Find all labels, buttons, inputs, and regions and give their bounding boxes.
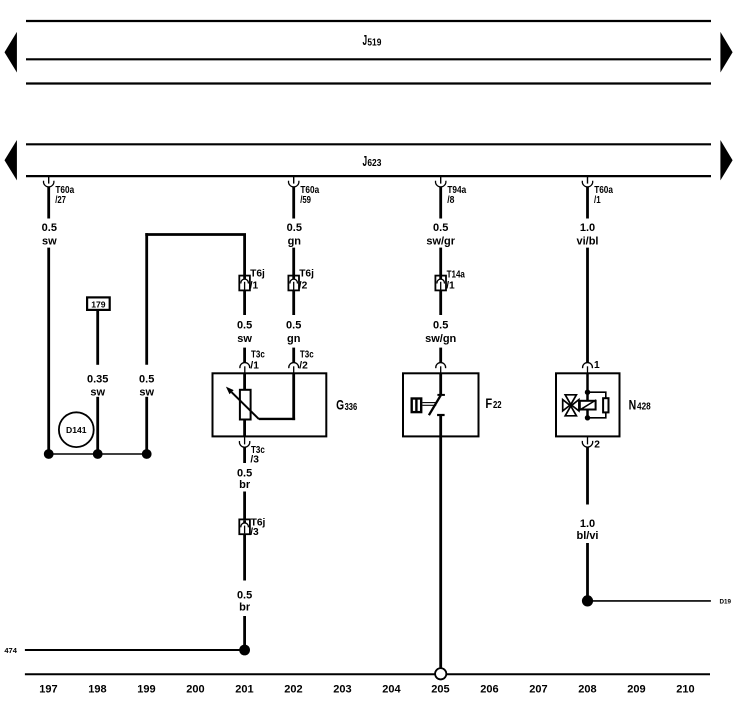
svg-text:T3c: T3c (300, 349, 314, 360)
svg-text:200: 200 (186, 683, 204, 695)
svg-text:199: 199 (137, 683, 155, 695)
svg-text:/27: /27 (55, 195, 66, 206)
splice D141 (59, 412, 94, 447)
wire to F22 (439, 348, 442, 363)
connector T14a/1 (435, 269, 465, 291)
svg-text:T6j: T6j (299, 269, 314, 280)
svg-text:0.35: 0.35 (87, 373, 108, 385)
svg-text:D19: D19 (720, 599, 732, 606)
svg-text:gn: gn (287, 333, 301, 345)
svg-text:201: 201 (235, 683, 253, 695)
svg-text:0.5: 0.5 (286, 320, 301, 332)
switch lever (429, 395, 441, 415)
svg-text:0.5: 0.5 (237, 320, 252, 332)
connector T3c/3 (239, 436, 265, 465)
bus J623 line 2 (26, 175, 711, 177)
ground wire 474 (25, 649, 245, 651)
wire track199 lower (145, 397, 148, 454)
wire 0.5 sw track197 upper (47, 187, 50, 219)
junction dot track199 (142, 449, 152, 459)
svg-text:/3: /3 (250, 454, 259, 465)
sender G336 box (213, 373, 358, 436)
svg-text:sw/gn: sw/gn (425, 333, 456, 345)
connection box 179 (87, 297, 110, 310)
connector T60a/59 pin at bus (289, 177, 320, 206)
pressure element (411, 397, 423, 413)
svg-text:1.0: 1.0 (580, 518, 595, 530)
svg-text:0.5: 0.5 (433, 222, 448, 234)
svg-text:203: 203 (333, 683, 351, 695)
svg-text:204: 204 (382, 683, 401, 695)
wire to ground junction (243, 616, 246, 650)
wire 0.5 sw track199 upper (145, 233, 148, 365)
svg-text:0.5: 0.5 (42, 222, 57, 234)
bus J623 right arrow (720, 140, 732, 180)
valve cross (565, 395, 576, 405)
bus J623 line 1 (26, 143, 711, 145)
svg-text:0.5: 0.5 (139, 373, 154, 385)
svg-text:179: 179 (91, 299, 106, 309)
svg-text:/2: /2 (299, 281, 308, 292)
wire track198 lower (96, 397, 99, 454)
svg-text:/2: /2 (299, 361, 308, 372)
svg-text:208: 208 (578, 683, 596, 695)
svg-text:428: 428 (637, 402, 651, 413)
svg-text:0.5: 0.5 (237, 590, 252, 602)
wire F22 to earth rail (439, 415, 442, 668)
svg-text:gn: gn (288, 235, 302, 247)
bus J519 line 2 (26, 58, 711, 60)
svg-text:sw: sw (237, 333, 252, 345)
lower contact (437, 414, 445, 416)
junction wire (49, 453, 147, 455)
connector pin 1 at N428 (583, 360, 600, 373)
bus J623 left arrow (5, 140, 17, 180)
svg-text:474: 474 (4, 646, 17, 655)
svg-text:2: 2 (594, 440, 600, 451)
coil loop (588, 392, 606, 418)
connector T60a/1 pin at bus (582, 177, 613, 206)
wire 0.5 sw track201 (243, 290, 246, 315)
svg-text:22: 22 (493, 400, 502, 411)
wire track208 to N428 (586, 248, 589, 363)
connector T6j/1 (239, 269, 265, 292)
wire to G336 pin1 (243, 348, 246, 363)
svg-text:206: 206 (480, 683, 498, 695)
svg-text:/59: /59 (300, 195, 311, 206)
svg-text:205: 205 (431, 683, 449, 695)
svg-text:1: 1 (594, 360, 600, 371)
wire 0.5 br track201 (243, 447, 246, 463)
connector T60a/27 pin at bus (44, 177, 75, 206)
wire to T6j/3 (243, 492, 246, 520)
wiper arrow in G336 (232, 392, 259, 419)
svg-text:0.5: 0.5 (433, 320, 448, 332)
svg-text:N: N (629, 397, 637, 412)
push rod (422, 402, 436, 404)
earth circle redraw above rail (435, 668, 446, 679)
svg-text:sw/gr: sw/gr (426, 235, 455, 247)
wire 1.0 bl/vi track208 (586, 447, 589, 504)
svg-text:br: br (239, 602, 251, 614)
svg-text:sw: sw (90, 387, 105, 399)
svg-text:197: 197 (39, 683, 57, 695)
earth connection circle track205 (435, 668, 446, 679)
svg-text:198: 198 (88, 683, 106, 695)
svg-text:F: F (485, 396, 492, 411)
connector T6j/3 (239, 518, 265, 538)
wire track205 to T14a/1 (439, 248, 442, 276)
svg-text:209: 209 (627, 683, 645, 695)
switch F22 box (403, 373, 502, 436)
wire to D19 (588, 600, 711, 602)
wire T6j/1 drop (243, 235, 246, 276)
resistor in G336 (240, 390, 251, 420)
junction dot pin1 side (585, 390, 590, 395)
svg-text:/1: /1 (446, 281, 455, 292)
svg-text:T14a: T14a (447, 269, 466, 280)
bus J519 right arrow (720, 32, 732, 73)
svg-text:207: 207 (529, 683, 547, 695)
svg-text:/1: /1 (594, 195, 601, 206)
ground junction dot (239, 645, 250, 656)
svg-text:T3c: T3c (251, 349, 265, 360)
connector T3c/2 (289, 349, 314, 373)
junction dot track197 (44, 449, 54, 459)
connector pin 2 at N428 (582, 436, 600, 450)
svg-text:sw: sw (139, 387, 154, 399)
wire 0.5 gn track202 upper (292, 187, 295, 219)
junction dot D19 (582, 595, 593, 606)
svg-text:0.5: 0.5 (287, 222, 302, 234)
upper contact tick (437, 394, 445, 396)
svg-text:D141: D141 (66, 425, 87, 435)
wire track202 to T6j/2 (292, 248, 295, 276)
wire 0.5 sw/gr track205 upper (439, 187, 442, 219)
wire 1.0 vi/bl track208 upper (586, 187, 589, 219)
junction dot pin2 side (585, 415, 590, 420)
bus J519 left arrow (5, 32, 17, 73)
connector pin at F22 (436, 363, 446, 374)
connector T94a/8 pin at bus (436, 177, 467, 206)
svg-text:210: 210 (676, 683, 694, 695)
earth rail (25, 673, 710, 675)
wire 0.35 sw track198 upper (96, 310, 99, 365)
wire to G336 pin2 (292, 348, 295, 363)
svg-text:623: 623 (367, 158, 381, 169)
coil rect (603, 398, 608, 412)
wire track199 corner to T6j/1 (145, 233, 246, 236)
connector T6j/2 (288, 269, 314, 292)
wire to D19 junction (586, 543, 589, 601)
throttle rect with diagonal (580, 401, 596, 410)
bus J519 line 3 (26, 82, 711, 84)
svg-text:bl/vi: bl/vi (576, 530, 598, 542)
wire 0.5 gn track202 (292, 290, 295, 315)
svg-text:T6j: T6j (250, 269, 265, 280)
wire 0.5 sw/gn track205 (439, 290, 442, 315)
junction dot track198 (93, 449, 103, 459)
svg-text:/8: /8 (447, 195, 454, 206)
svg-text:202: 202 (284, 683, 302, 695)
valve N428 box (556, 373, 651, 436)
svg-text:/3: /3 (250, 527, 259, 538)
connector T3c/1 (240, 349, 265, 373)
svg-text:336: 336 (345, 402, 358, 413)
svg-text:/1: /1 (250, 281, 259, 292)
svg-text:519: 519 (367, 37, 381, 48)
svg-text:/1: /1 (250, 361, 259, 372)
wire track197 lower (47, 248, 50, 454)
svg-text:sw: sw (42, 235, 57, 247)
wire 0.5 br below T6j/3 (243, 534, 246, 580)
bus J519 line 1 (26, 20, 711, 22)
svg-text:br: br (239, 479, 251, 491)
svg-text:vi/bl: vi/bl (576, 235, 598, 247)
svg-text:1.0: 1.0 (580, 222, 595, 234)
svg-text:G: G (336, 398, 344, 413)
